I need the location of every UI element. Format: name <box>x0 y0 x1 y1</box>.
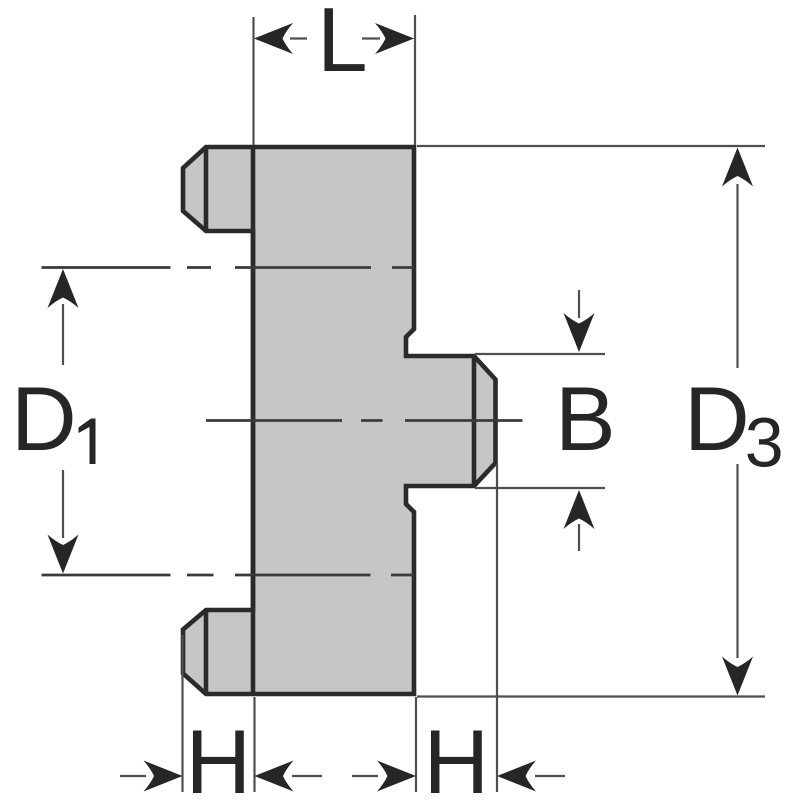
dimension H right <box>352 712 565 800</box>
dimension L <box>254 0 414 91</box>
dimension D1 <box>11 269 96 574</box>
internal edge: plate left face <box>251 147 256 694</box>
dimension B <box>555 290 616 551</box>
svg-text:L: L <box>317 0 368 91</box>
H extension plate left <box>253 697 255 792</box>
internal edge: bottom tooth face <box>204 610 209 694</box>
sprocket cross-section body <box>183 147 496 694</box>
internal edge: top tooth face <box>204 147 209 231</box>
centerline top pitch line y=267.5 <box>42 266 415 269</box>
svg-text:H: H <box>186 712 252 800</box>
svg-text:D: D <box>11 369 77 470</box>
internal edge: hub face <box>472 356 477 486</box>
D3 extension bottom <box>417 695 765 697</box>
subscript 1 drawn as path (no foot serif) <box>79 419 96 465</box>
L extension left <box>252 17 254 145</box>
B extension bottom <box>475 487 605 489</box>
L extension right <box>414 15 416 145</box>
svg-text:H: H <box>424 712 490 800</box>
B extension top <box>475 353 605 355</box>
D3 extension top <box>417 145 765 147</box>
svg-text:B: B <box>555 369 616 470</box>
H extension hub right <box>496 464 498 792</box>
dimension H left <box>120 712 322 800</box>
svg-text:3: 3 <box>745 404 784 482</box>
H extension plate right <box>415 697 417 792</box>
H extension tooth tip <box>181 635 183 792</box>
dimension D3 <box>684 148 784 696</box>
svg-text:D: D <box>684 369 750 470</box>
centerline bottom pitch line y=575 <box>42 574 415 577</box>
extension lines (thin) <box>183 15 766 792</box>
centerline axis y=420.5 <box>206 419 523 422</box>
